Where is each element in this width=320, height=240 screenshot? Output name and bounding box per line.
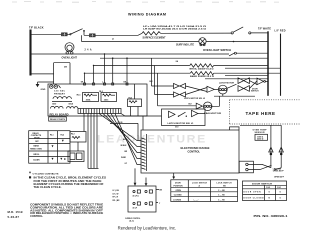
motor fan motor M2 <box>203 96 219 110</box>
junction dot <box>233 41 235 43</box>
svg-text:PRIMARY: PRIMARY <box>54 92 66 95</box>
transformer plug symbols <box>50 85 61 88</box>
svg-text:LATCH MOTOR: LATCH MOTOR <box>219 81 234 84</box>
svg-text:LATCH MOTOR SW. #2: LATCH MOTOR SW. #2 <box>184 97 206 100</box>
wire bus to transformer <box>31 63 71 84</box>
svg-text:LOCKED: LOCKED <box>173 199 182 201</box>
wire rail 7 <box>225 67 281 69</box>
wire rail bake <box>85 72 281 74</box>
wire rail ind lite <box>82 41 269 43</box>
svg-text:SENSOR: SENSOR <box>255 132 265 134</box>
motor latch motor M1 <box>214 85 227 94</box>
svg-text:BAKE: BAKE <box>34 145 40 148</box>
wire rail L1 top <box>31 31 142 42</box>
wire RL3 to board top <box>131 84 139 116</box>
junction dot <box>267 67 269 69</box>
svg-text:MODE: MODE <box>34 137 40 139</box>
svg-text:BROIL 3400W 16.4 Ω: BROIL 3400W 16.4 Ω <box>190 68 214 71</box>
svg-text:2200 Ω: 2200 Ω <box>257 139 264 141</box>
svg-text:CLEAN: CLEAN <box>33 159 40 162</box>
door switch triangle <box>257 78 268 85</box>
svg-text:WIRING DIAGRAM: WIRING DIAGRAM <box>128 12 166 16</box>
svg-text:GND: GND <box>41 89 46 91</box>
switch latch motor sw <box>227 84 237 88</box>
switch oven light switch <box>229 52 268 56</box>
wire harness fan to ERC <box>99 114 141 165</box>
scan noise top edge <box>12 1 279 4</box>
svg-text:LF -| BU: LF -| BU <box>113 190 120 192</box>
relay board box <box>48 84 147 116</box>
switch S2 surface unit switch <box>231 27 268 34</box>
svg-text:C — NO: C — NO <box>218 190 225 192</box>
amplifier triangle A1 <box>207 86 214 92</box>
wire limit switch <box>248 164 281 170</box>
wire rail oven light <box>31 53 229 55</box>
connector pair 3 <box>238 78 249 84</box>
svg-text:240C: 240C <box>104 98 109 101</box>
svg-text:LATCH MOTOR SW. #1: LATCH MOTOR SW. #1 <box>168 122 195 125</box>
sensor value box <box>255 134 268 140</box>
amplifier triangle A2 <box>196 103 202 109</box>
relay RL3 lower box <box>70 132 86 152</box>
resistor bake element <box>190 72 213 75</box>
svg-text:5-26-87: 5-26-87 <box>8 215 20 219</box>
svg-text:LEADVENTURE: LEADVENTURE <box>97 134 207 146</box>
resistor surface element <box>142 32 161 35</box>
lock switch table <box>171 180 238 202</box>
terminal block lower left <box>68 151 84 162</box>
svg-text:CLOSED: CLOSED <box>174 195 183 197</box>
transformer secondary coils <box>51 106 64 108</box>
svg-text:POSITION: POSITION <box>174 185 184 187</box>
svg-text:P/N. NO. 336090-1: P/N. NO. 336090-1 <box>254 214 289 218</box>
svg-text:SURFACE CONTROL: SURFACE CONTROL <box>125 217 140 220</box>
svg-text:OPEN: OPEN <box>176 190 182 192</box>
wire rail 4 <box>100 57 268 59</box>
fuse F2 <box>90 34 96 37</box>
svg-text:500A: 500A <box>69 102 74 105</box>
svg-text:FAN MOTOR: FAN MOTOR <box>204 112 222 115</box>
svg-text:LF+ UM-1250A 41.7 Ω LR 160A 2: LF+ UM-1250A 41.7 Ω LR 160A 21.5 Ω <box>143 25 206 28</box>
svg-text:120 VAC: 120 VAC <box>54 90 65 93</box>
wire latch verticals <box>152 58 158 106</box>
relay RL2 <box>101 93 117 102</box>
bus T/F WHITE <box>267 31 269 96</box>
ERC connector strip <box>142 134 147 171</box>
latch motor sw1 box <box>162 109 206 126</box>
connector pair 2 <box>174 92 186 97</box>
svg-text:(4-1): (4-1) <box>130 220 135 223</box>
arrowhead 1 <box>134 183 137 186</box>
wire L-105 <box>110 123 138 140</box>
svg-text:400A: 400A <box>86 98 91 101</box>
svg-text:ELECTRONIC RANGE: ELECTRONIC RANGE <box>181 147 210 150</box>
svg-text:SURFACE ELEMENT: SURFACE ELEMENT <box>143 37 167 40</box>
lamp SURF IND LITE <box>199 38 206 46</box>
svg-text:T/F WHITE: T/F WHITE <box>258 27 271 30</box>
wire rail L1 right <box>161 32 232 34</box>
svg-text:40 LF LI: 40 LF LI <box>133 195 140 198</box>
junction dot bake x bus1 <box>267 72 269 74</box>
ERC box electronic range control <box>141 127 239 173</box>
wire latch bottom rail <box>214 94 255 96</box>
svg-text:THE CLEAN CYCLE.: THE CLEAN CYCLE. <box>34 186 62 189</box>
svg-text:SWITCH: SWITCH <box>251 91 259 93</box>
fuse F1 <box>62 33 68 36</box>
surface control box <box>128 186 156 212</box>
svg-text:OVEN LIGHT SWITCH: OVEN LIGHT SWITCH <box>203 50 231 52</box>
connector pair 4 <box>238 86 249 92</box>
board bottom terminal strip <box>78 109 121 114</box>
svg-text:M.D. 1519: M.D. 1519 <box>8 210 23 214</box>
arrowhead 2 <box>145 183 148 186</box>
svg-text:OVEN LIGHT: OVEN LIGHT <box>62 56 78 59</box>
thermal fuse 2 <box>279 147 283 155</box>
svg-text:RL3: RL3 <box>71 134 75 136</box>
svg-text:DOOR SWITCH: DOOR SWITCH <box>252 183 273 185</box>
wire to connector pair 2 <box>155 94 174 96</box>
svg-text:RL2: RL2 <box>99 91 103 93</box>
wire to connector pair 1 <box>152 85 174 87</box>
wire sensor top <box>240 124 281 126</box>
ground <box>36 82 40 87</box>
wire rail 8 <box>225 75 268 77</box>
terminal box limit switch <box>239 161 253 173</box>
label cycling contacts <box>29 172 59 176</box>
svg-text:LR 824F BV-2024A 26.6 Ω DR 26: LR 824F BV-2024A 26.6 Ω DR 2650A 2.5 Ω <box>143 28 206 31</box>
svg-text:1500: 1500 <box>52 103 56 105</box>
wire sensor verticals <box>271 125 281 167</box>
wire rail 9 <box>205 78 268 80</box>
svg-text:‹— —›: ‹— —› <box>193 199 199 201</box>
wire cross to latch motor <box>186 86 208 95</box>
lamp oven light <box>65 43 74 54</box>
thermal fuse 1 <box>269 147 273 155</box>
svg-text:CONTROL.: CONTROL. <box>30 215 43 218</box>
connector pair 1 <box>174 83 186 88</box>
wire fan motor rail <box>158 105 197 107</box>
svg-text:RELAY POINTS: RELAY POINTS <box>50 118 66 121</box>
relay table marks <box>52 140 66 160</box>
junction dots <box>84 53 105 74</box>
svg-text:TIMED OVEN: TIMED OVEN <box>30 149 42 151</box>
bus L/F RED <box>280 34 282 96</box>
svg-text:L/F RED: L/F RED <box>275 29 286 32</box>
svg-text:DOOR OPEN: DOOR OPEN <box>244 192 262 194</box>
svg-text:T/F BLACK: T/F BLACK <box>29 26 44 29</box>
transformer primary coil <box>53 97 71 99</box>
svg-text:RL2: RL2 <box>61 135 65 137</box>
svg-text:W-BLK: W-BLK <box>121 145 128 147</box>
svg-text:C — NO: C — NO <box>218 199 225 201</box>
svg-text:TAPE HERE: TAPE HERE <box>246 111 276 116</box>
svg-text:L-105: L-105 <box>118 122 123 124</box>
svg-text:CYCLING CONTACTS: CYCLING CONTACTS <box>33 172 60 175</box>
svg-text:24A: 24A <box>85 48 92 51</box>
svg-text:SURF IND LITE: SURF IND LITE <box>176 44 195 46</box>
tape here dashed box <box>230 100 300 124</box>
wire to latch sw 1 <box>121 114 162 131</box>
svg-text:Rendered by LeadVenture, Inc.: Rendered by LeadVenture, Inc. <box>118 225 177 230</box>
svg-text:2M: 2M <box>64 66 67 68</box>
relay points table <box>29 131 70 164</box>
wire ERC to surface control arrow 1 <box>135 168 174 183</box>
wire rail broil <box>94 65 269 67</box>
wire harness bottom bar <box>88 167 99 169</box>
svg-text:DOOR CLOSED: DOOR CLOSED <box>244 198 265 200</box>
relay points label box <box>49 117 67 121</box>
svg-text:OPEN 400°F: OPEN 400°F <box>273 170 285 173</box>
svg-text:RR -| BR: RR -| BR <box>113 200 121 202</box>
svg-text:C — NO: C — NO <box>218 195 225 197</box>
resistor broil element <box>190 64 214 67</box>
surface switch symbols <box>133 190 153 205</box>
wire harness left verticals <box>84 114 97 169</box>
bus T/F BLACK <box>29 30 31 76</box>
note block clean cycle <box>29 176 106 189</box>
arrowhead 3 <box>172 177 175 180</box>
svg-text:BAKE 2585W 22.2 Ω: BAKE 2585W 22.2 Ω <box>190 75 214 78</box>
note block component symbols <box>30 204 104 219</box>
svg-text:RF -| R: RF -| R <box>113 197 119 199</box>
svg-text:RL1: RL1 <box>50 135 54 137</box>
wire board terminals up to rails <box>85 54 128 83</box>
switch S1 <box>70 29 85 35</box>
svg-text:BROIL: BROIL <box>34 154 41 156</box>
svg-text:RELAY BOARD: RELAY BOARD <box>50 113 69 116</box>
wire cross to door switch <box>249 81 257 89</box>
door switch table <box>243 181 287 201</box>
svg-text:OPEN 65°F: OPEN 65°F <box>274 176 285 178</box>
junction dots rail 4 <box>112 57 114 59</box>
svg-text:CONTROL: CONTROL <box>188 151 201 154</box>
svg-text:LR -| W: LR -| W <box>113 193 119 195</box>
svg-text:W-BR: W-BR <box>121 157 127 159</box>
surface box exit wires <box>156 189 159 202</box>
svg-text:40 LF: 40 LF <box>133 207 137 210</box>
board top terminal squares <box>84 83 129 85</box>
